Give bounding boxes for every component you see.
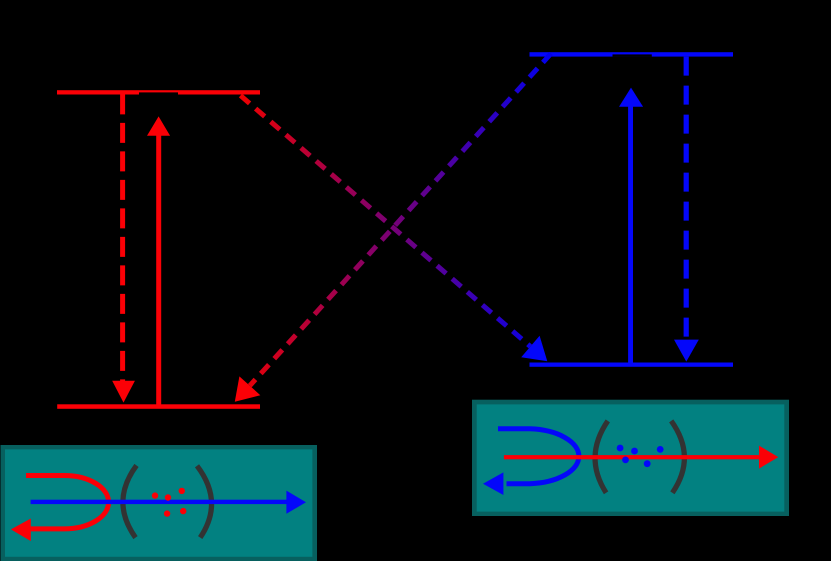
left box blue right arrow head [286, 491, 306, 514]
right box red right arrow shaft [504, 455, 759, 459]
right teal box fill [477, 404, 785, 511]
blue solid up arrow head [619, 88, 643, 107]
upper red level (left) [57, 90, 260, 94]
blue solid up arrow shaft [628, 107, 633, 363]
right box right parenthesis [671, 421, 684, 493]
right box left parenthesis [595, 421, 608, 493]
left teal box border [1, 445, 318, 561]
notch in upper red level [139, 92, 178, 94]
blue dashed arrow head [674, 340, 699, 362]
right teal box border [472, 400, 789, 516]
diagonal dashed gradient line (upper-left to lower-right) [241, 96, 531, 347]
red arrow head of diagonal [235, 376, 260, 401]
upper blue level (right) [530, 52, 734, 56]
left box blue right arrow shaft [31, 500, 287, 504]
right box blue U-turn curve [498, 429, 579, 484]
left box red left arrow head [11, 519, 31, 542]
left box red U-turn curve [26, 476, 109, 529]
lower blue level (right) [530, 363, 734, 367]
right box red right arrow head [759, 446, 778, 469]
diagonal dashed gradient line (upper-right to lower-left) [250, 54, 551, 386]
left box red atom dots [152, 488, 187, 517]
blue arrow head of diagonal [521, 336, 547, 361]
notch in upper blue level [613, 54, 652, 56]
red dashed down arrow line [120, 94, 125, 382]
right box blue left arrow head [483, 472, 503, 495]
left box left parenthesis [123, 465, 137, 537]
right box blue atom dots [617, 445, 664, 468]
red solid up arrow shaft [156, 135, 161, 405]
left box right parenthesis [197, 466, 212, 538]
red dashed arrow head [112, 381, 135, 403]
lower red level (left) [57, 404, 260, 409]
red solid up arrow head [147, 116, 170, 135]
left teal box fill [5, 449, 312, 556]
blue dashed down arrow line [684, 57, 689, 341]
